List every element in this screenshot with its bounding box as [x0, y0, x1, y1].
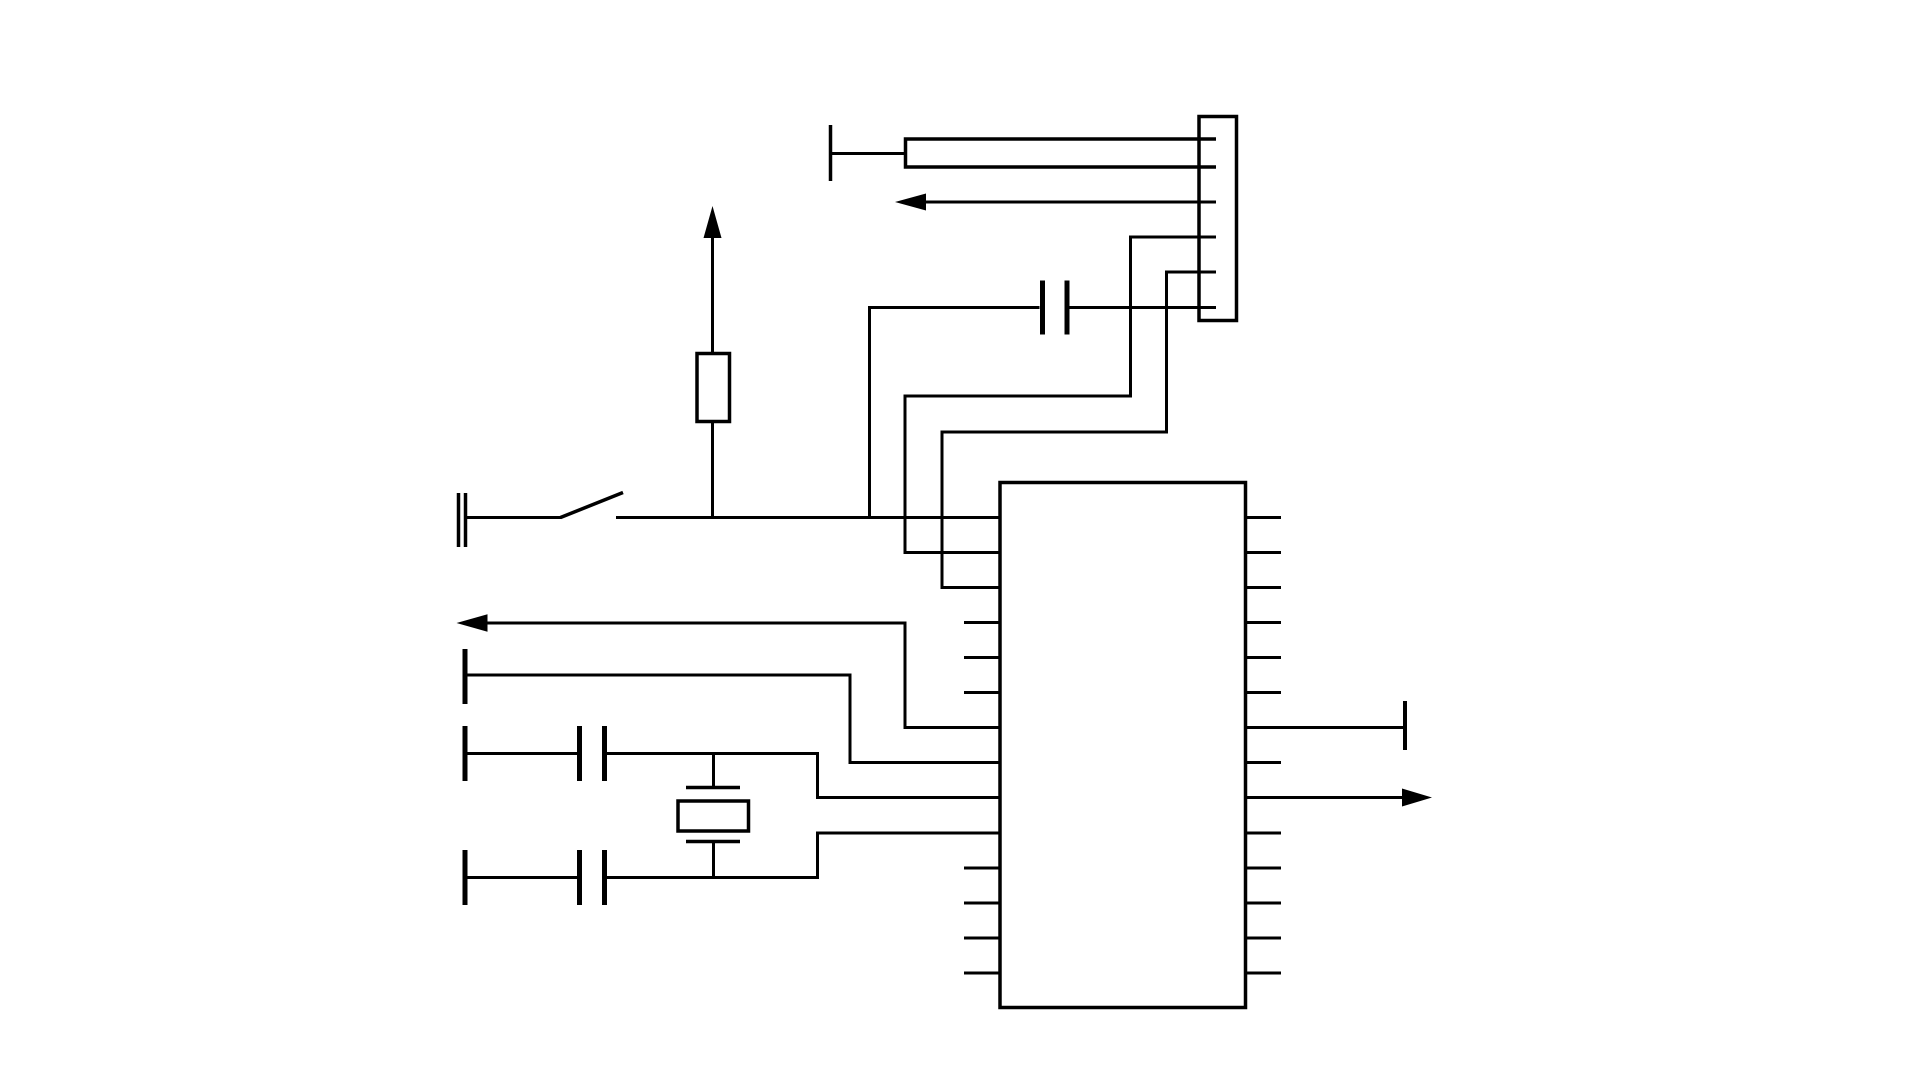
- arrow net U1 pin9 right pointing right: [1246, 796, 1404, 799]
- wire C1 right to J1 pin6: [1070, 306, 1217, 309]
- capacitor C3 right plate: [602, 850, 607, 905]
- crystal Y1 top lead: [712, 754, 715, 790]
- wire C1 left to switch node: [870, 308, 1040, 518]
- arrow net from J1 pin3 pointing left: [922, 201, 1216, 204]
- crystal Y1 bottom lead: [712, 840, 715, 878]
- wire net J1 pin5 to U1 pin3: [942, 272, 1216, 588]
- terminal T1 (top left header pin): [829, 125, 833, 181]
- capacitor C1 right plate: [1065, 281, 1070, 335]
- wire T2 to U1 pin8: [467, 675, 999, 763]
- wire C3 to U1 pin10: [607, 833, 1000, 878]
- arrow net U1 pin7 pointing left: [486, 623, 1000, 728]
- wire C2 terminal to plate: [467, 752, 578, 755]
- component box W1 (long box into connector pins 1-2): [906, 139, 1217, 167]
- capacitor C2 left plate: [577, 726, 582, 781]
- terminal T2 (left bar): [463, 649, 468, 704]
- wire S1 pole: [467, 516, 561, 519]
- crystal Y1 body: [678, 801, 749, 831]
- capacitor C2 terminal bar: [463, 726, 468, 781]
- terminal T3 (right bar): [1403, 701, 1407, 750]
- power arrow VCC: [704, 206, 722, 238]
- capacitor C3 terminal bar: [463, 850, 468, 905]
- resistor R1: [697, 354, 730, 422]
- wire C3 terminal to plate: [467, 876, 578, 879]
- crystal Y1 bottom plate: [686, 840, 740, 844]
- IC U1 body: [1000, 483, 1246, 1008]
- wire net J1 pin4 to U1 pin2: [905, 237, 1216, 553]
- U1 left pin stubs (pins 11-14): [964, 867, 999, 870]
- switch S1 pole terminal (double bar): [457, 493, 461, 547]
- U1 right pin stubs: [1246, 516, 1282, 519]
- wire C2 to U1 pin9: [607, 754, 1000, 798]
- U1 left pin stubs (pins 4-6): [964, 621, 999, 624]
- switch S1 blade: [561, 493, 624, 518]
- wire S1 throw to U1 pin1: [616, 516, 999, 519]
- wire U1 pin7 right to terminal T3: [1246, 726, 1404, 729]
- connector J1 pin stubs: [1199, 201, 1216, 204]
- connector J1 body: [1199, 117, 1237, 321]
- wire R1 to switch node: [711, 423, 714, 518]
- crystal Y1 top plate: [686, 786, 740, 790]
- capacitor C2 right plate: [602, 726, 607, 781]
- capacitor C3 left plate: [577, 850, 582, 905]
- capacitor C1 left plate: [1040, 281, 1045, 335]
- wire T1 to box: [832, 152, 906, 155]
